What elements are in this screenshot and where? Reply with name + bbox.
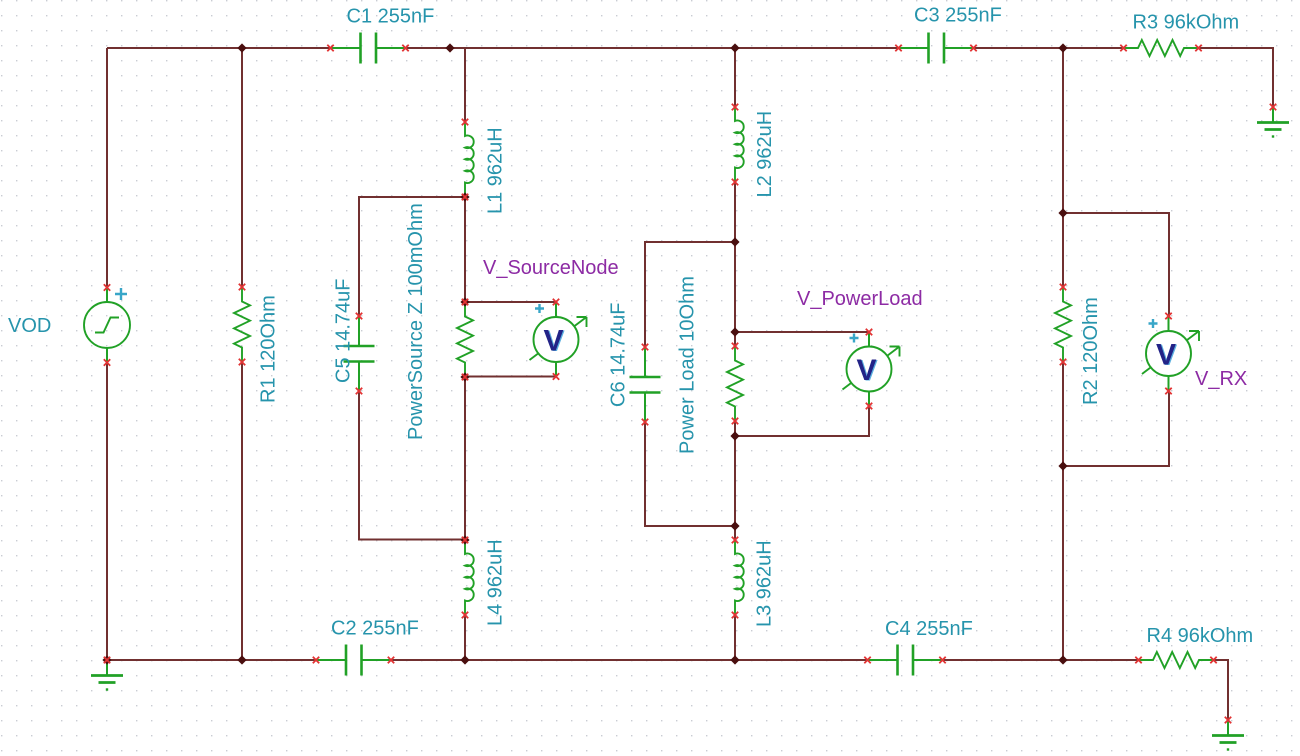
pin R2 top	[1060, 284, 1066, 290]
wire C5 loop top	[359, 197, 465, 316]
capacitor C6	[630, 347, 661, 422]
pin L3 top	[732, 537, 738, 543]
svg-text:VOD: VOD	[8, 315, 51, 337]
wire V_RX top	[1063, 213, 1169, 316]
plus sign of V_PowerLoad	[850, 334, 859, 343]
svg-text:C3 255nF: C3 255nF	[914, 5, 1002, 27]
node junction L1 / C5 loop	[460, 192, 469, 201]
wire V_SourceNode top	[465, 301, 556, 303]
svg-text:PowerSource Z 100mOhm: PowerSource Z 100mOhm	[405, 203, 427, 440]
svg-text:C5 14.74uF: C5 14.74uF	[333, 278, 355, 383]
inductor L1	[465, 122, 474, 197]
wire V_PowerLoad bottom	[735, 406, 869, 436]
wire node branch x465 mid2	[464, 377, 466, 540]
pin R3 right	[1195, 45, 1201, 51]
node junction bottom rail / R2 branch	[1058, 655, 1067, 664]
pin R3 left	[1120, 45, 1126, 51]
capacitor C4	[868, 645, 943, 676]
plus sign of VOD	[115, 288, 127, 300]
wire node branch x735 top	[734, 48, 736, 107]
pin L2 bottom	[732, 179, 738, 185]
wire R2 branch upper	[1062, 48, 1064, 287]
svg-text:L1 962uH: L1 962uH	[485, 127, 507, 214]
resistor R4	[1139, 652, 1214, 668]
wire V_PowerLoad top	[735, 331, 869, 333]
capacitor C3	[899, 33, 974, 64]
svg-text:V: V	[543, 324, 563, 357]
resistor PowerSource Z	[457, 302, 473, 377]
wire node branch x735 mid1	[734, 182, 736, 346]
svg-text:V: V	[1156, 338, 1176, 371]
node junction bottom rail / L4 branch	[460, 655, 469, 664]
wire top rail segment C	[974, 47, 1124, 49]
wire node branch x465 bottom	[464, 615, 466, 660]
wire bottom rail segment D (R4 to corner)	[1214, 660, 1229, 720]
plus sign of V_RX	[1149, 319, 1158, 328]
inductor L3	[735, 540, 744, 615]
wire top rail segment A	[107, 47, 331, 49]
pin C3 left	[895, 45, 901, 51]
wire node branch x735 mid2	[734, 421, 736, 540]
voltage source VOD	[84, 288, 130, 363]
pin C4 left	[864, 657, 870, 663]
wire left rail lower	[106, 363, 108, 661]
svg-text:C6 14.74uF: C6 14.74uF	[608, 302, 630, 407]
pin R1 top	[239, 284, 245, 290]
pin C4 right	[939, 657, 945, 663]
pin V_RX bottom	[1165, 388, 1171, 394]
pin C2 right	[388, 657, 394, 663]
pin C6 bottom	[642, 419, 648, 425]
pin L4 top	[462, 537, 468, 543]
node junction top rail / L2 branch	[730, 43, 739, 52]
pin PowerSource Z bottom	[462, 374, 468, 380]
pin R4 left	[1135, 657, 1141, 663]
svg-text:C2 255nF: C2 255nF	[331, 618, 419, 640]
pin R1 bottom	[239, 359, 245, 365]
resistor R1	[234, 287, 250, 362]
pin L2 top	[732, 104, 738, 110]
pin R2 bottom	[1060, 359, 1066, 365]
wire bottom rail segment A	[107, 659, 316, 661]
wire node branch x465 mid1	[464, 197, 466, 302]
svg-text:V_SourceNode: V_SourceNode	[483, 257, 619, 279]
node junction PowerSource Z bottom	[460, 372, 469, 381]
pin V_PowerLoad top	[866, 329, 872, 335]
node junction V_RX bottom	[1058, 461, 1067, 470]
svg-text:R4 96kOhm: R4 96kOhm	[1147, 625, 1254, 647]
wire left rail upper	[106, 48, 108, 288]
wire V_SourceNode bottom	[465, 376, 556, 378]
wire C6 loop top	[645, 242, 735, 347]
pin C1 right	[402, 45, 408, 51]
pin ground R4	[1225, 717, 1231, 723]
voltmeter V_SourceNode	[530, 303, 587, 377]
wire C6 loop bottom	[645, 422, 735, 526]
pin C6 top	[642, 344, 648, 350]
pin V_SourceNode bottom	[553, 373, 559, 379]
wire bottom rail segment C	[943, 659, 1139, 661]
capacitor C5	[344, 316, 375, 391]
svg-text:V_PowerLoad: V_PowerLoad	[797, 288, 923, 310]
pin V_SourceNode top	[553, 299, 559, 305]
wire R1 branch upper	[241, 48, 243, 287]
pin V_RX top	[1165, 313, 1171, 319]
wire top rail segment B	[406, 47, 900, 49]
node junction V_RX top	[1058, 208, 1067, 217]
node junction top rail / R1	[237, 43, 246, 52]
node junction Power Load top	[730, 327, 739, 336]
pin C5 bottom	[356, 388, 362, 394]
svg-text:C4 255nF: C4 255nF	[885, 618, 973, 640]
resistor R3	[1124, 40, 1199, 56]
voltmeter V_RX	[1142, 317, 1199, 391]
pin L1 top	[462, 119, 468, 125]
svg-text:R2 120Ohm: R2 120Ohm	[1080, 297, 1102, 405]
ground at VOD bottom	[91, 660, 123, 690]
resistor R2	[1055, 287, 1071, 362]
node junction top rail / L1 branch	[445, 43, 454, 52]
svg-text:L2 962uH: L2 962uH	[754, 111, 776, 198]
svg-text:R3 96kOhm: R3 96kOhm	[1133, 12, 1240, 34]
plus sign of V_SourceNode	[535, 304, 544, 313]
pin Power Load top	[732, 343, 738, 349]
pin C5 top	[356, 313, 362, 319]
svg-text:Power Load 10Ohm: Power Load 10Ohm	[677, 276, 699, 454]
svg-text:L4 962uH: L4 962uH	[485, 539, 507, 626]
node junction Power Load bottom	[730, 431, 739, 440]
node junction bottom rail / R1	[237, 655, 246, 664]
node junction L3 / C6 loop	[730, 521, 739, 530]
capacitor C2	[316, 645, 391, 676]
pin VOD +	[104, 284, 110, 290]
svg-text:V: V	[856, 354, 876, 387]
pin VOD -	[104, 359, 110, 365]
capacitor C1	[331, 33, 406, 64]
inductor L2	[735, 107, 744, 182]
pin V_PowerLoad bottom	[866, 403, 872, 409]
node junction L4 / C5 loop	[460, 535, 469, 544]
inductor L4	[465, 540, 474, 615]
wire node branch x465 top	[464, 48, 466, 122]
pin L4 bottom	[462, 612, 468, 618]
node junction L2 / C6 loop	[730, 237, 739, 246]
node junction bottom rail / ground	[102, 655, 111, 664]
wire bottom rail segment B	[391, 659, 868, 661]
pin R4 right	[1210, 657, 1216, 663]
pin C2 left	[313, 657, 319, 663]
pin L1 bottom	[462, 194, 468, 200]
node junction top rail / R2 branch	[1058, 43, 1067, 52]
node junction PowerSource Z top	[460, 297, 469, 306]
pin PowerSource Z top	[462, 299, 468, 305]
voltmeter V_PowerLoad	[843, 332, 900, 406]
pin C1 left	[327, 45, 333, 51]
pin L3 bottom	[732, 612, 738, 618]
svg-text:R1 120Ohm: R1 120Ohm	[258, 295, 280, 403]
ground at R3 output	[1257, 107, 1289, 137]
resistor Power Load	[727, 346, 743, 421]
svg-text:C1 255nF: C1 255nF	[347, 5, 435, 27]
wire R1 branch lower	[241, 362, 243, 660]
ground at R4 output	[1212, 720, 1244, 750]
pin ground VOD	[104, 657, 110, 663]
svg-text:V_RX: V_RX	[1195, 368, 1247, 390]
wire V_RX bottom	[1063, 391, 1169, 466]
wire node branch x735 bottom	[734, 615, 736, 660]
wire R2 branch lower	[1062, 362, 1064, 660]
pin C3 right	[970, 45, 976, 51]
svg-text:L3 962uH: L3 962uH	[754, 540, 776, 627]
pin ground R3	[1270, 104, 1276, 110]
wire top rail segment D (R3 to corner)	[1199, 48, 1274, 107]
pin Power Load bottom	[732, 418, 738, 424]
node junction bottom rail / L3 branch	[730, 655, 739, 664]
wire C5 loop bottom	[359, 391, 465, 540]
